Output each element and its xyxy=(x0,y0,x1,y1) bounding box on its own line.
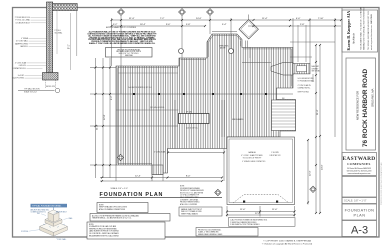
svg-text:2" RIGID INSUL R-10: 2" RIGID INSUL R-10 xyxy=(15,17,30,19)
svg-text:2'-8": 2'-8" xyxy=(300,24,305,26)
svg-text:UP 14R: UP 14R xyxy=(186,111,192,113)
svg-text:8'-1": 8'-1" xyxy=(69,44,71,49)
svg-text:SCALE: 1/8" = 1'-0": SCALE: 1/8" = 1'-0" xyxy=(344,199,367,203)
svg-text:24'-0": 24'-0" xyxy=(322,164,324,170)
svg-text:2x10 FLOOR JOISTS @ 16" O.C.: 2x10 FLOOR JOISTS @ 16" O.C. xyxy=(128,87,153,89)
svg-text:www.eastwardcompanies.com: www.eastwardcompanies.com xyxy=(348,172,371,175)
svg-text:SLABS: 4" CONC OVER 6 MIL VAPO: SLABS: 4" CONC OVER 6 MIL VAPOR BARRIER … xyxy=(89,42,155,45)
svg-text:31'-6": 31'-6" xyxy=(97,124,99,130)
svg-text:2x10 LEDGER BOLTED: 2x10 LEDGER BOLTED xyxy=(298,78,315,80)
svg-text:31'-6": 31'-6" xyxy=(317,109,319,115)
svg-text:COMPANIES: COMPANIES xyxy=(347,162,371,166)
svg-text:Karen B. Knepper AIA: Karen B. Knepper AIA xyxy=(346,11,351,51)
svg-text:5'-8": 5'-8" xyxy=(186,24,191,26)
svg-text:STEP FOOTING: STEP FOOTING xyxy=(298,92,310,94)
svg-text:24'-6": 24'-6" xyxy=(196,18,202,20)
svg-text:FOOTING: FOOTING xyxy=(21,231,29,233)
svg-text:A-3: A-3 xyxy=(351,224,368,236)
svg-text:PROVIDE TERMITE SHIELD: PROVIDE TERMITE SHIELD xyxy=(180,202,200,204)
svg-text:9'-6": 9'-6" xyxy=(166,24,171,26)
svg-text:CONNECTION N.T.S.: CONNECTION N.T.S. xyxy=(31,212,47,214)
svg-text:FOUNDATION: FOUNDATION xyxy=(345,209,375,213)
svg-text:VERIFIED IN FIELD BY REGISTERE: VERIFIED IN FIELD BY REGISTERED xyxy=(89,228,118,230)
svg-text:9'-2": 9'-2" xyxy=(111,95,113,100)
svg-text:ORLEANS, MA: ORLEANS, MA xyxy=(370,88,374,107)
svg-text:Architects: Architects xyxy=(353,33,356,45)
svg-text:(3) 1-3/4 x 9-1/4 LVL: (3) 1-3/4 x 9-1/4 LVL xyxy=(150,107,165,109)
svg-text:GARAGE: GARAGE xyxy=(248,151,256,154)
svg-text:PRINTED 05/12/05 SHEET A-3 F: PRINTED 05/12/05 SHEET A-3 FOUNDATION PL… xyxy=(380,162,383,205)
svg-text:DROP AT DR: DROP AT DR xyxy=(270,154,281,157)
svg-text:7'-2": 7'-2" xyxy=(160,18,165,20)
svg-text:NOTE:: NOTE: xyxy=(89,224,94,226)
svg-text:SILL: SILL xyxy=(37,213,40,215)
svg-text:NOTE:: NOTE: xyxy=(99,204,104,206)
svg-text:MASSACHUSETTS 02650 ALL RIGH: MASSACHUSETTS 02650 ALL RIGHTS RESERVED xyxy=(363,7,366,50)
svg-text:8'-0": 8'-0" xyxy=(186,175,191,177)
svg-text:© COPYRIGHT 2005 / KAREN: © COPYRIGHT 2005 / KAREN B. KNEPPER AIA xyxy=(263,240,311,243)
svg-text:NOTE:: NOTE: xyxy=(180,186,185,188)
svg-text:22'-0": 22'-0" xyxy=(310,170,312,176)
svg-text:10x20 FOOTING: 10x20 FOOTING xyxy=(12,78,25,80)
svg-text:MIN 7" EMBEDMENT INTO: MIN 7" EMBEDMENT INTO xyxy=(180,197,199,199)
svg-text:www.knepperarchitectsaia.com: www.knepperarchitectsaia.com - AIA NCARB xyxy=(370,13,373,50)
svg-text:P.T. SILL: P.T. SILL xyxy=(55,30,61,32)
svg-text:31'-6": 31'-6" xyxy=(129,18,135,20)
svg-text:2x4 KEY: 2x4 KEY xyxy=(18,75,25,77)
svg-text:12'-8": 12'-8" xyxy=(104,114,106,120)
svg-text:TEL 508 945-5451 FAX 508 945-: TEL 508 945-5451 FAX 508 945-5452 EST 19… xyxy=(367,11,370,50)
svg-text:CHIMNEY: CHIMNEY xyxy=(312,68,319,70)
svg-text:11'-0": 11'-0" xyxy=(272,209,278,211)
svg-text:6 MIL V.B.: 6 MIL V.B. xyxy=(19,65,27,67)
svg-text:18'-4": 18'-4" xyxy=(140,24,146,26)
svg-text:TO DOOR 1/8" PER FT: TO DOOR 1/8" PER FT xyxy=(243,158,263,160)
svg-text:12'-4": 12'-4" xyxy=(135,175,141,177)
svg-text:2x10 @ 16" O.C.: 2x10 @ 16" O.C. xyxy=(186,128,199,130)
svg-text:© Violation of copyright All W: © Violation of copyright All Work Herein… xyxy=(262,243,313,246)
svg-text:76 ROCK HARBOR ROAD: 76 ROCK HARBOR ROAD xyxy=(362,69,369,147)
svg-text:7'-10": 7'-10" xyxy=(318,18,324,20)
svg-text:KEYED FTG: KEYED FTG xyxy=(46,86,56,88)
svg-text:2x10 @ 16" O.C. TYP U.N.O.: 2x10 @ 16" O.C. TYP U.N.O. xyxy=(119,53,140,55)
svg-text:4'-0": 4'-0" xyxy=(296,18,301,20)
svg-text:720 ORLEANS ROAD - P.O. BOX 51: 720 ORLEANS ROAD - P.O. BOX 516 - N. CHA… xyxy=(360,6,363,50)
svg-text:TYPICAL FOUNDATION DETAIL: TYPICAL FOUNDATION DETAIL xyxy=(32,205,62,208)
svg-text:3'-2": 3'-2" xyxy=(113,24,118,26)
svg-text:11'-4": 11'-4" xyxy=(262,18,268,20)
svg-text:NEW RESIDENCE FOR: NEW RESIDENCE FOR xyxy=(355,91,359,120)
svg-text:OPEN DECK: OPEN DECK xyxy=(219,46,229,48)
svg-text:11'-0": 11'-0" xyxy=(240,209,246,211)
svg-text:FOUNDATION PLAN: FOUNDATION PLAN xyxy=(100,192,164,198)
svg-text:SCALE: 1/4" = 1'-0": SCALE: 1/4" = 1'-0" xyxy=(111,187,129,190)
svg-text:22'-0": 22'-0" xyxy=(255,213,261,215)
svg-text:PLAN: PLAN xyxy=(354,214,366,218)
svg-text:2 SLOPE: 2 SLOPE xyxy=(271,152,279,154)
svg-text:5'-4": 5'-4" xyxy=(222,24,227,26)
